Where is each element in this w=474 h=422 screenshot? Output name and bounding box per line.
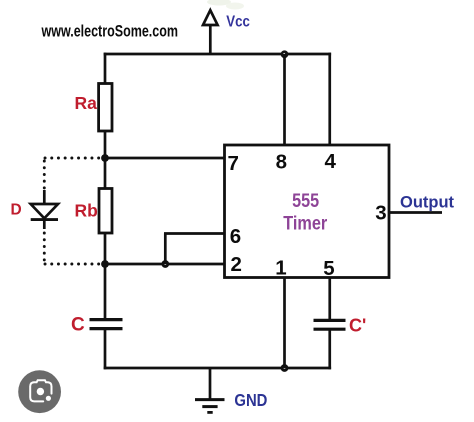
resistor Ra (99, 84, 112, 132)
resistor Rb (99, 189, 112, 234)
svg-text:6: 6 (230, 225, 241, 248)
wire GND stem (209, 368, 212, 399)
dotted wire diode bottom to node B (45, 263, 100, 266)
svg-text:7: 7 (227, 152, 238, 175)
wire pin 7 (105, 157, 226, 160)
capacitor C' top plate (314, 319, 346, 322)
capacitor C bottom plate (90, 327, 123, 330)
diode D cathode bar (31, 218, 58, 221)
svg-text:5: 5 (323, 257, 334, 280)
op-amp 555 timer box U1 (225, 145, 390, 278)
wire bottom rail (104, 367, 331, 370)
svg-text:2: 2 (230, 253, 241, 276)
wire Vcc stem (209, 24, 212, 55)
wire Ra to Rb (104, 131, 107, 189)
ground bar 3 (207, 411, 212, 414)
wire C' to bottom rail (328, 330, 331, 370)
svg-text:Vcc: Vcc (226, 13, 250, 30)
wire pin 2 (105, 263, 226, 266)
capacitor C' bottom plate (314, 328, 346, 331)
svg-text:1: 1 (275, 257, 286, 280)
wire pin 5 to C' (328, 277, 331, 320)
node junction pin2 row (101, 260, 109, 268)
svg-text:4: 4 (324, 150, 336, 173)
wire diode cathode lead (43, 220, 46, 229)
node junction on top rail (281, 50, 289, 58)
svg-text:GND: GND (234, 390, 267, 410)
wire rail to pin 8 (283, 54, 286, 146)
watermark smudge top center (207, 0, 244, 10)
ground bar 2 (202, 405, 217, 408)
svg-text:C: C (71, 314, 85, 335)
svg-text:D: D (11, 202, 22, 219)
svg-text:Timer: Timer (283, 213, 327, 235)
diode D triangle (31, 204, 58, 218)
capacitor C top plate (90, 318, 123, 321)
junction ring at pin6 tap (161, 260, 169, 268)
dotted wire diode bottom vertical (43, 233, 46, 261)
svg-text:3: 3 (375, 202, 386, 225)
wire diode anode lead (43, 190, 46, 204)
wire pin6 vertical tap (164, 234, 167, 265)
node junction pin7 row (101, 154, 109, 162)
wire C to bottom rail (104, 329, 107, 369)
ground bar 1 (195, 398, 225, 401)
svg-text:Ra: Ra (75, 93, 98, 113)
svg-text:8: 8 (276, 151, 287, 174)
dotted wire diode top vertical (43, 161, 46, 189)
Vcc supply arrow (203, 10, 218, 25)
dotted wire node A to diode top (45, 157, 100, 160)
wire pin 3 output (389, 211, 442, 214)
wire top rail (104, 53, 331, 56)
wire Rb to C (104, 233, 107, 318)
svg-text:Rb: Rb (75, 200, 98, 220)
svg-text:www.electroSome.com: www.electroSome.com (41, 22, 178, 40)
svg-text:Output: Output (400, 193, 455, 211)
wire rail corner to pin 4 (328, 53, 331, 146)
wire pin 1 to rail (283, 277, 286, 369)
wire left rail to Ra (104, 53, 107, 85)
camera lens icon (18, 370, 61, 413)
svg-text:C': C' (349, 316, 366, 336)
junction ring on bottom rail (281, 364, 289, 372)
wire pin 6 (164, 232, 226, 235)
svg-text:555: 555 (292, 191, 319, 212)
